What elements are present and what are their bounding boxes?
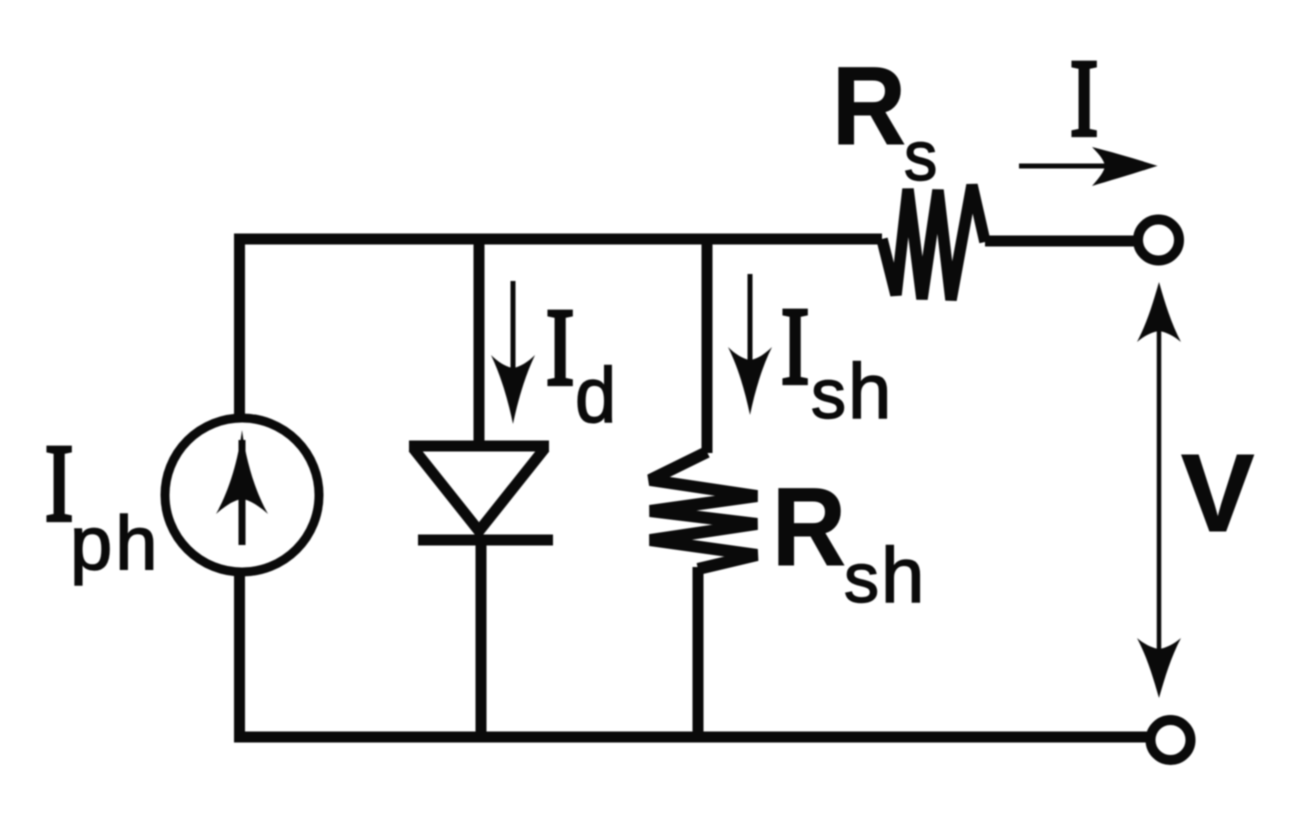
current source arrow shaft xyxy=(239,440,246,545)
svg-text:I: I xyxy=(546,288,574,409)
wire top rail xyxy=(234,234,882,245)
arrow I_sh head xyxy=(728,347,772,415)
label R_s : s xyxy=(904,117,937,195)
arrow I head xyxy=(1092,147,1158,186)
wire shunt branch lower xyxy=(693,567,704,737)
svg-text:ph: ph xyxy=(70,501,158,586)
svg-text:I: I xyxy=(45,424,73,545)
wire diode branch lower xyxy=(476,540,487,737)
svg-text:R: R xyxy=(772,466,846,589)
wire left vertical bottom segment xyxy=(234,573,245,737)
svg-text:sh: sh xyxy=(811,347,891,435)
resistor R_s zigzag xyxy=(882,185,985,300)
svg-text:I: I xyxy=(781,287,809,408)
wire left vertical top segment xyxy=(234,239,245,416)
arrow V head top xyxy=(1137,282,1181,342)
svg-text:V: V xyxy=(1181,432,1254,555)
diode D1 cathode bar xyxy=(418,535,553,546)
label R_sh : sh xyxy=(844,531,924,619)
svg-text:sh: sh xyxy=(844,531,924,619)
svg-text:s: s xyxy=(904,117,937,195)
label I_d : I xyxy=(546,288,574,409)
terminal top (+) xyxy=(1138,220,1179,261)
label I_sh : sh xyxy=(811,347,891,435)
arrow I shaft xyxy=(1019,164,1140,169)
label I_ph : I xyxy=(45,424,73,545)
arrow I_d head xyxy=(491,355,535,424)
svg-text:d: d xyxy=(575,352,616,439)
current source arrowhead xyxy=(216,430,268,514)
arrow V shaft xyxy=(1157,292,1162,688)
label I (output current) xyxy=(1070,39,1098,160)
current source U1 circle xyxy=(165,418,319,572)
label V (output voltage) xyxy=(1181,432,1254,555)
diode D1 triangle xyxy=(413,448,545,531)
svg-text:R: R xyxy=(832,45,906,168)
label R_sh : R xyxy=(772,466,846,589)
label I_d : d xyxy=(575,352,616,439)
arrow V head bottom xyxy=(1137,638,1181,698)
label I_ph : ph xyxy=(70,501,158,586)
svg-text:I: I xyxy=(1070,39,1098,160)
resistor R_sh zigzag xyxy=(650,452,757,569)
arrow I_d shaft xyxy=(511,281,516,400)
label I_sh : I xyxy=(781,287,809,408)
terminal bottom (-) xyxy=(1151,720,1191,760)
arrow I_sh shaft xyxy=(748,274,753,392)
wire shunt branch upper xyxy=(702,239,713,453)
wire bottom rail xyxy=(234,732,1150,743)
diode D1 anode bar xyxy=(409,441,549,452)
wire diode branch upper xyxy=(474,239,485,449)
wire output top xyxy=(985,236,1136,247)
label R_s : R xyxy=(832,45,906,168)
